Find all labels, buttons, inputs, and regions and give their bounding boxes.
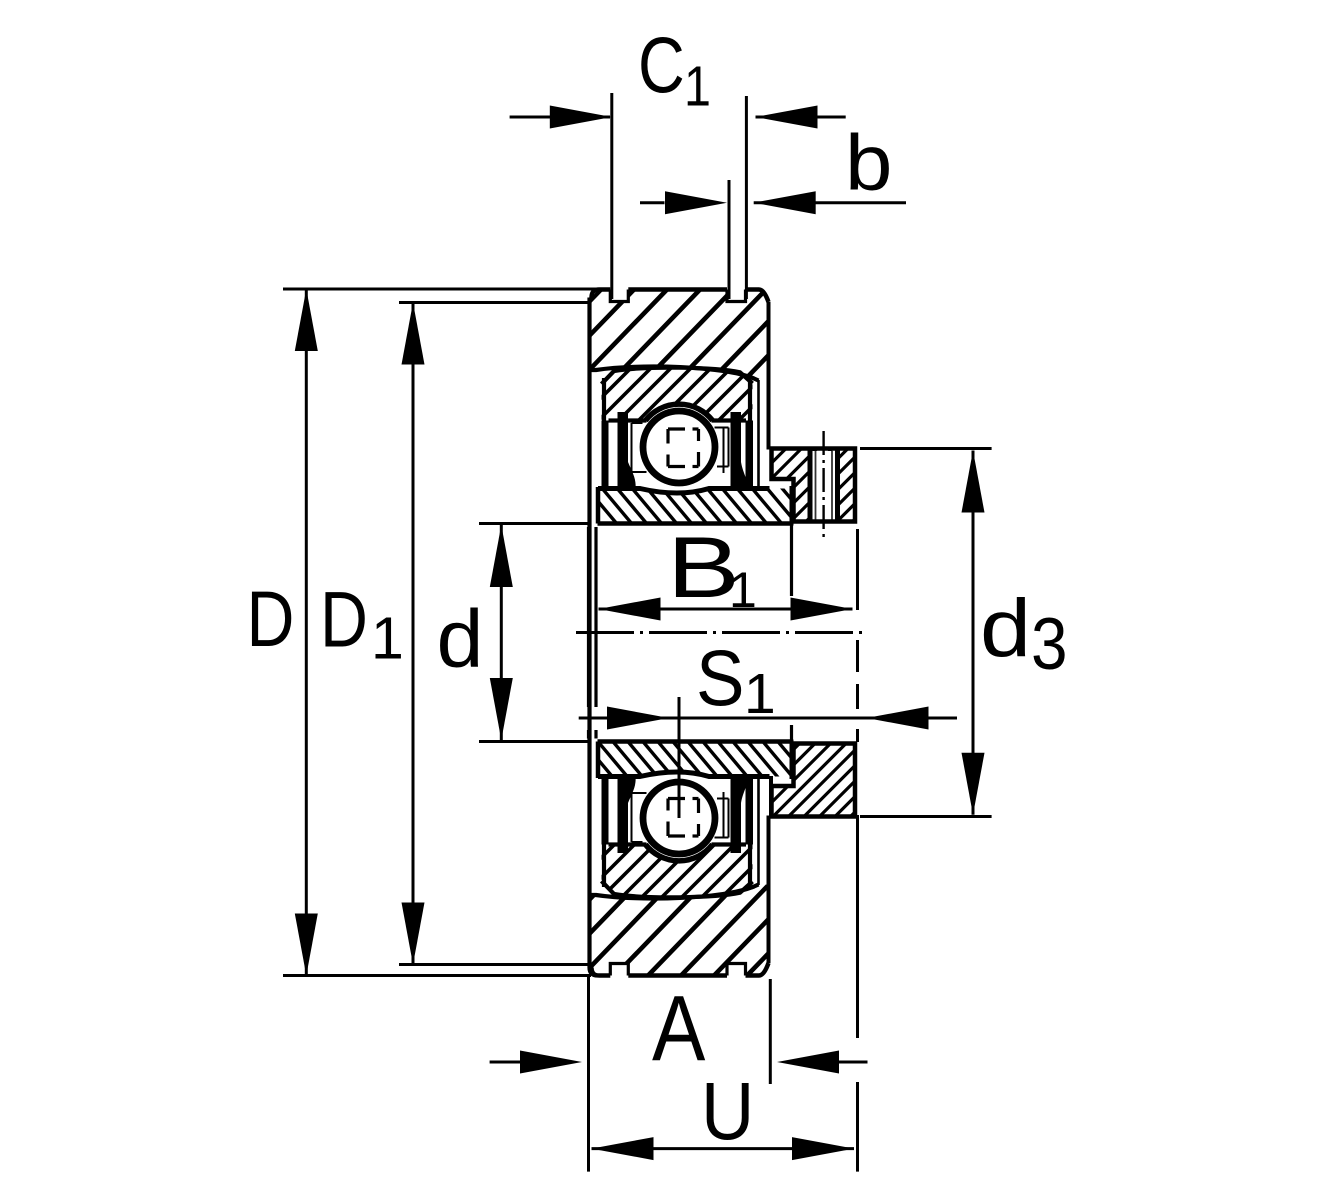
dimension D [283,288,596,291]
svg-text:D: D [320,576,368,664]
dimension U [592,1147,855,1150]
svg-text:1: 1 [729,562,757,618]
dimension b [728,180,731,299]
dimension S1 [579,717,957,720]
svg-text:1: 1 [744,662,776,726]
svg-text:1: 1 [684,55,711,119]
collar right face extension [856,529,859,610]
dimension A [587,977,590,1172]
horizontal centre line [576,631,866,634]
locking collar (top) [680,446,1053,524]
dimension D1 [399,301,589,304]
outer ring housing (top) [480,290,1030,381]
inner ring right face extension [790,525,793,596]
svg-text:S: S [696,634,744,722]
ball cage (top) [631,423,633,472]
ball centre mark (bottom) [668,834,685,837]
insert bearing outer ring (bottom) [540,844,915,899]
ball centre mark (top) [668,427,685,430]
inner ring (top) [586,487,903,525]
ball (bottom) [643,782,715,854]
svg-text:3: 3 [1031,603,1068,685]
set screw centre line [822,431,824,542]
svg-text:A: A [652,976,705,1080]
seal right (bottom) [731,775,749,853]
svg-text:D: D [247,576,295,664]
svg-text:d: d [980,583,1031,674]
seal right (top) [731,412,749,490]
dimension C1 [610,93,613,299]
svg-text:d: d [437,593,484,685]
seal left (bottom) [618,776,636,853]
ball cage (bottom) [631,793,633,842]
set screw [813,451,836,520]
dimension d [479,522,591,525]
insert bearing outer ring (top) [538,366,913,421]
dimension d3 [860,447,992,450]
outer ring housing (bottom) [483,885,1033,976]
inner ring left face extension [594,527,597,707]
svg-text:U: U [701,1064,754,1157]
ball (top) [643,411,715,483]
svg-text:1: 1 [371,606,404,672]
dimension B1 [599,608,853,611]
outer ring left face [590,298,598,976]
inner ring (bottom) [582,740,899,778]
seal left (top) [618,412,636,489]
outer ring left silhouette through bore [587,527,590,707]
locking collar (bottom) [678,741,1051,819]
svg-text:C: C [638,22,685,109]
svg-text:b: b [845,119,892,206]
ball vertical centre line [678,697,681,818]
